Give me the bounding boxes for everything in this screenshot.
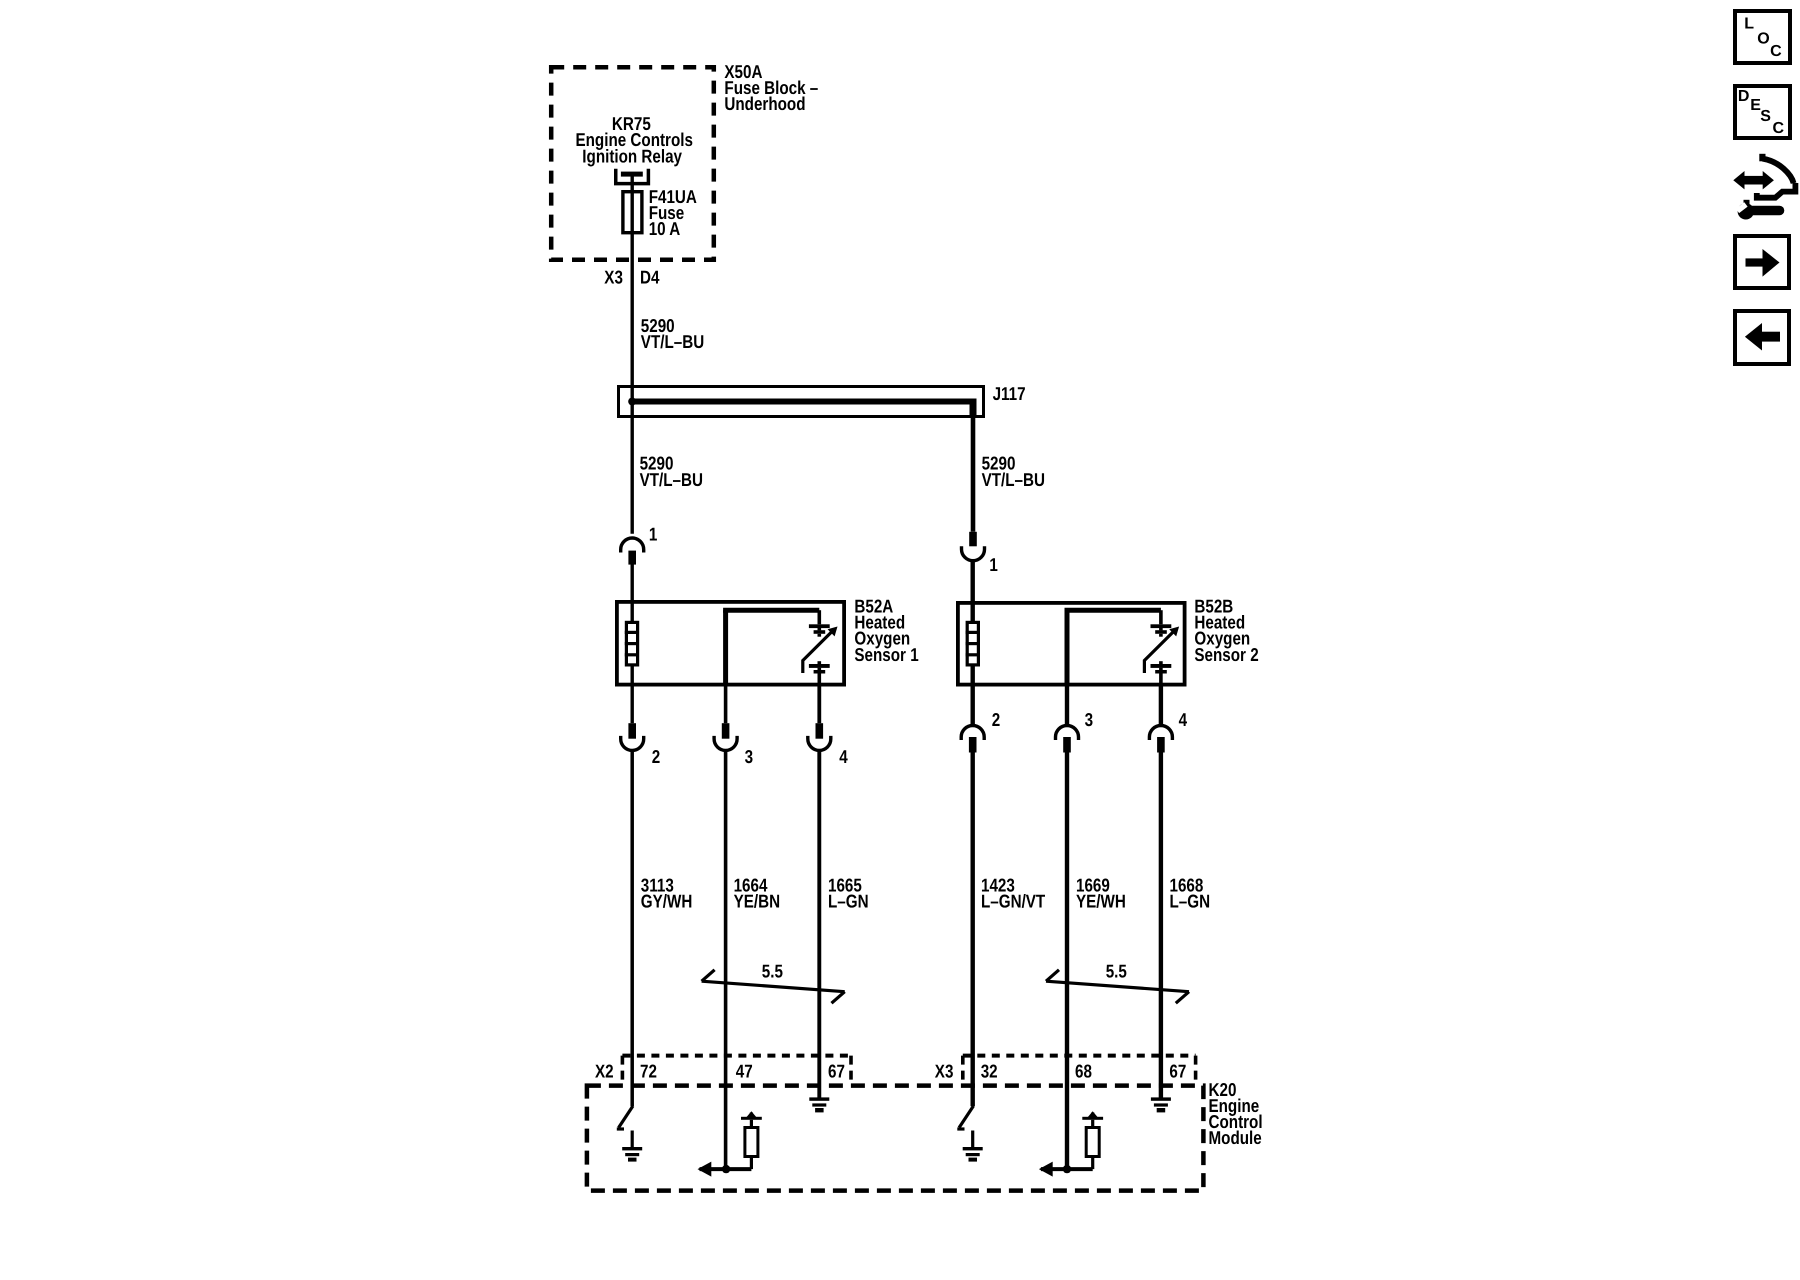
wire pin1 to B52B (971, 560, 975, 622)
svg-text:3: 3 (745, 746, 753, 767)
svg-text:10 A: 10 A (649, 218, 681, 239)
svg-text:L: L (1744, 15, 1754, 32)
svg-text:68: 68 (1075, 1061, 1092, 1082)
svg-text:S: S (1760, 108, 1771, 125)
svg-text:72: 72 (640, 1061, 657, 1082)
B52A heater element (625, 622, 639, 665)
wire label 1668 L-GN (1170, 875, 1211, 912)
wire label 1665 L-GN (828, 875, 869, 912)
svg-text:X2: X2 (595, 1061, 614, 1082)
svg-text:1: 1 (989, 554, 997, 575)
svg-text:D: D (1738, 88, 1750, 105)
back arrow box (1735, 311, 1789, 364)
svg-text:4: 4 (839, 746, 848, 767)
fuse F41UA (623, 186, 697, 239)
relay KR75 label (576, 113, 693, 166)
svg-text:32: 32 (981, 1061, 998, 1082)
ECM pull-up resistor (pin 68) (1039, 1111, 1103, 1176)
fuse block X50A dashed box (551, 61, 818, 260)
svg-text:X3: X3 (935, 1061, 954, 1082)
long wire B52B pin3 to ECM 68 (1065, 753, 1069, 1170)
desc button box (1735, 86, 1790, 138)
long wire B52B pin4 to ECM 67 (1159, 753, 1163, 1098)
svg-text:VT/L–BU: VT/L–BU (640, 469, 703, 490)
B52A pin3 riser and feed (723, 610, 819, 686)
svg-text:47: 47 (736, 1061, 753, 1082)
B52A pin 4 connector (808, 687, 848, 768)
svg-text:3: 3 (1085, 709, 1093, 730)
wire label 1423 L-GN/VT (981, 875, 1046, 912)
ECM driver switch (pin 72) (617, 1106, 633, 1147)
svg-text:VT/L–BU: VT/L–BU (641, 331, 704, 352)
K20 engine control module dashed box (587, 1079, 1263, 1191)
svg-text:YE/BN: YE/BN (734, 891, 780, 912)
ECM pull-up resistor (pin 47) (698, 1111, 762, 1176)
B52B pin 2 connector (961, 709, 1000, 753)
svg-text:2: 2 (652, 746, 660, 767)
harness size marker 5.5 (right) (1046, 961, 1189, 1004)
svg-text:L–GN: L–GN (828, 891, 869, 912)
ground (ECM internal, right) (963, 1147, 983, 1162)
B52B pin3 riser and feed (1065, 610, 1161, 686)
svg-text:Underhood: Underhood (724, 93, 805, 114)
B52B heated oxygen sensor 2 box (958, 596, 1259, 685)
long wire B52A pin2 to ECM 72 (630, 750, 634, 1106)
wire pin1 to B52A (631, 565, 634, 623)
wire label 1664 YE/BN (734, 875, 780, 912)
ground (ECM pin 67 left) (809, 1097, 829, 1112)
loc button box (1735, 11, 1790, 63)
wire label 5290 VT/L-BU (left) (640, 453, 703, 491)
wire B52B heater low to pin2 (971, 665, 975, 726)
svg-text:C: C (1773, 120, 1785, 137)
wire B52A pin3 down (724, 687, 728, 724)
B52A pin 3 connector (714, 723, 753, 767)
svg-text:J117: J117 (993, 383, 1026, 404)
wire relay to sensor connector (left trunk) (631, 177, 634, 534)
svg-text:5.5: 5.5 (762, 961, 783, 982)
long wire B52B pin2 to ECM 32 (971, 753, 975, 1107)
next arrow box (1735, 236, 1789, 288)
B52B pin 3 connector (1056, 709, 1094, 753)
svg-text:Module: Module (1209, 1127, 1262, 1148)
svg-text:Ignition Relay: Ignition Relay (582, 145, 682, 166)
relay KR75 contact (616, 169, 649, 184)
B52A heated oxygen sensor 1 box (617, 596, 919, 685)
svg-text:D4: D4 (640, 267, 660, 288)
schematic nav icon (1733, 154, 1795, 220)
B52B sensing cell (1144, 624, 1179, 686)
svg-text:L–GN/VT: L–GN/VT (981, 891, 1046, 912)
B52B heater element (966, 622, 980, 665)
long wire B52A pin3 to ECM 47 (724, 750, 728, 1169)
svg-text:Sensor 1: Sensor 1 (854, 644, 918, 665)
svg-text:2: 2 (992, 709, 1000, 730)
svg-text:GY/WH: GY/WH (641, 891, 693, 912)
wire label 1669 YE/WH (1076, 875, 1126, 912)
B52A sensing cell (803, 624, 838, 686)
svg-text:X3: X3 (604, 267, 623, 288)
ECM driver switch (pin 32) (957, 1106, 973, 1147)
svg-text:O: O (1757, 31, 1769, 48)
B52B pin 4 connector (1149, 687, 1187, 753)
wire B52B pin3 down (1065, 687, 1069, 726)
ground (ECM internal, left) (622, 1147, 642, 1162)
B52A pin 1 connector (621, 524, 658, 565)
wire B52A heater low to pin2 (631, 665, 634, 724)
ECM connector strip X3 (935, 1056, 1196, 1086)
wire J117 to B52B (right branch) (971, 417, 976, 532)
svg-text:4: 4 (1179, 709, 1188, 730)
long wire B52A pin4 to ECM 67 (817, 750, 821, 1098)
svg-text:YE/WH: YE/WH (1076, 891, 1126, 912)
svg-text:Sensor 2: Sensor 2 (1194, 644, 1258, 665)
svg-text:5.5: 5.5 (1106, 961, 1127, 982)
connector id X3 / pin D4 (604, 267, 660, 288)
B52B pin 1 connector (962, 532, 998, 575)
svg-text:VT/L–BU: VT/L–BU (982, 469, 1045, 490)
harness size marker 5.5 (left) (702, 961, 845, 1004)
wire label 3113 GY/WH (641, 875, 693, 912)
svg-text:67: 67 (1169, 1061, 1186, 1082)
svg-text:1: 1 (649, 524, 657, 545)
svg-text:L–GN: L–GN (1170, 891, 1211, 912)
ground (ECM pin 67 right) (1151, 1097, 1171, 1112)
svg-text:67: 67 (828, 1061, 845, 1082)
ECM connector strip X2 (595, 1056, 851, 1086)
B52A pin 2 connector (621, 723, 661, 767)
splice J117 (619, 383, 1026, 418)
svg-text:C: C (1770, 43, 1782, 60)
wire label 5290 VT/L-BU (right) (982, 453, 1045, 491)
wire label 5290 VT/L-BU (top) (641, 315, 704, 352)
